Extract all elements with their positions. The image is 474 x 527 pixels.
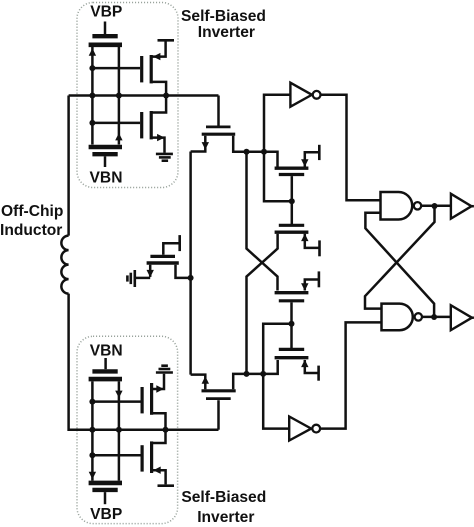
node dot gate feed lower (bottom block) (89, 452, 95, 458)
node dot gate feed upper (bottom block) (89, 399, 95, 405)
wire common source vertical (189, 152, 192, 375)
transistor M6 tail current source (136, 235, 191, 278)
svg-text:VBP: VBP (90, 3, 122, 20)
wire left rail upper (67, 96, 70, 236)
self-biased inverter box (top, dashed) (77, 3, 178, 188)
wire gate feed lower (bottom block) (92, 454, 140, 457)
svg-text:Inductor: Inductor (0, 222, 62, 239)
wire gate feed upper (bottom block) (92, 400, 140, 403)
buffer U4 (top) (451, 194, 474, 219)
node dot Y row right (260, 371, 266, 377)
node dot Y row left (244, 371, 250, 377)
svg-text:VBN: VBN (90, 343, 123, 360)
node dot top row b (116, 93, 122, 99)
node dot latch top gates (289, 198, 295, 204)
self-biased inverter box (bottom, dashed) (77, 336, 178, 523)
wire gate feed lower (top block) (92, 122, 140, 125)
svg-text:Self-Biased: Self-Biased (181, 489, 266, 506)
wire node Y to latch gates (263, 324, 291, 374)
wire gate feed upper (top block) (92, 67, 140, 70)
transistor M8 latch (1st, drain up) (275, 145, 320, 202)
buffer U6 (bottom) (451, 305, 474, 330)
svg-text:VBP: VBP (90, 506, 122, 523)
wire cross-couple top-out to bottom-in (365, 206, 435, 309)
transistor M11 latch (4th, drain down) (275, 324, 319, 381)
transistor M2 VBN-gated (top block bottom device) (89, 147, 122, 167)
inductor L1 off-chip (61, 236, 68, 294)
inverter U2 (bottom) (289, 322, 381, 440)
node dot bottom row b (116, 427, 122, 433)
transistor M7 big lower (diff pair bottom) (191, 360, 278, 430)
wire node Y feed to bottom inverter (263, 374, 289, 429)
wire left vertical of top block with arrow (89, 47, 96, 145)
wire mid vertical of top block with arrow (115, 47, 122, 145)
wire main node row of bottom block (69, 428, 219, 431)
node dot bottom row a (89, 427, 95, 433)
svg-text:Off-Chip: Off-Chip (1, 203, 63, 220)
transistor M3 PMOS (top block right upper) (142, 40, 174, 95)
wire mid vertical of bottom block with arrow (115, 381, 122, 480)
wire left vertical of bottom block with arrow (89, 381, 96, 480)
node dot latch bottom gates (289, 321, 295, 327)
svg-text:VBN: VBN (90, 170, 123, 187)
node dot gate feed upper (89, 65, 95, 71)
ground (bottom block, inverted) (156, 366, 173, 373)
node dot top nand output (432, 203, 438, 209)
transistor M5 big upper (diff pair top) (191, 96, 278, 167)
svg-text:Inverter: Inverter (197, 509, 254, 526)
wire crossover A (node X down to M10 drain) (247, 152, 278, 291)
wire node X to latch gates (264, 152, 292, 202)
nand U3 (top) (381, 192, 451, 220)
transistor M1 VBP-gated (top block top device) (89, 22, 122, 45)
inverter U1 (top) (290, 83, 380, 201)
wire left rail lower (69, 294, 219, 430)
ground (tail, rotated left) (127, 270, 134, 287)
transistor M10 latch (3rd, drain up) (275, 271, 319, 323)
wire crossover B (M9 drain down to node Y) (247, 234, 278, 374)
node dot bottom nand output (431, 314, 437, 320)
transistor M15 (bottom block right lower) (142, 430, 174, 486)
wire main node row of top block (69, 94, 219, 97)
node dot X row right (261, 149, 267, 155)
transistor M4 NMOS (top block right lower) (142, 96, 166, 153)
transistor M9 latch (2nd, drain down) (275, 201, 320, 256)
wire node X feed to top inverter (264, 95, 290, 152)
label VBN lead (bottom block) (104, 358, 107, 369)
svg-text:Self-Biased: Self-Biased (181, 8, 266, 25)
node dot X row left (244, 149, 250, 155)
node dot gate feed lower (89, 120, 95, 126)
svg-text:Inverter: Inverter (198, 24, 255, 41)
node dot top row c (163, 93, 169, 99)
nand U5 (bottom) (382, 304, 451, 331)
transistor M14 NMOS (bottom block right upper) (142, 374, 165, 430)
wire cross-couple bottom-out to top-in (365, 213, 434, 317)
node dot tail (188, 275, 194, 281)
node dot top row a (89, 93, 95, 99)
transistor M13 VBP-gated (bottom block bottom device) (89, 483, 122, 504)
ground (top block) (156, 154, 173, 161)
transistor M12 VBN-gated (bottom block top device) (89, 371, 122, 379)
node dot bottom row c (163, 427, 169, 433)
